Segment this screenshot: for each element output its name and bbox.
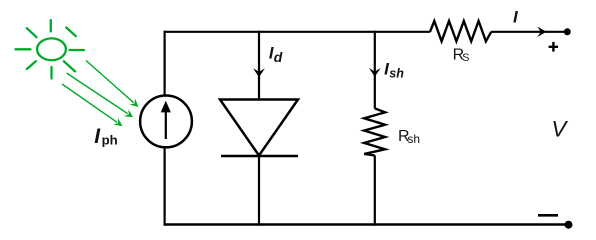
terminal + dot xyxy=(564,28,571,35)
wire top right (after Rs) xyxy=(491,31,566,33)
wire shunt branch lower xyxy=(374,155,376,225)
label - xyxy=(538,214,558,217)
label Rsh xyxy=(398,128,420,146)
wire left lower xyxy=(164,148,166,226)
svg-text:V: V xyxy=(551,117,568,142)
current arrow I xyxy=(537,27,546,38)
label + xyxy=(549,42,559,52)
svg-text:ph: ph xyxy=(102,132,118,147)
current source Iph xyxy=(140,96,192,148)
resistor Rsh xyxy=(364,108,385,155)
current arrow Id xyxy=(253,68,265,77)
label Id xyxy=(269,44,283,65)
current source arrow xyxy=(161,101,171,139)
wire shunt branch upper xyxy=(374,31,376,109)
svg-text:sh: sh xyxy=(389,67,404,81)
wire top xyxy=(164,31,431,33)
resistor Rs xyxy=(430,21,491,41)
light ray arrow 1 xyxy=(86,61,139,108)
current arrow Ish xyxy=(369,68,381,77)
wire bottom xyxy=(164,223,569,225)
label Iph xyxy=(94,125,117,148)
svg-text:sh: sh xyxy=(407,132,420,146)
wire diode branch lower xyxy=(258,156,260,226)
sun xyxy=(16,20,85,79)
wire diode branch upper xyxy=(258,31,260,100)
label Rs xyxy=(453,47,470,64)
label Ish xyxy=(384,59,404,80)
light ray arrow 2 xyxy=(67,73,134,117)
terminal - dot xyxy=(565,221,573,229)
light ray arrow 3 xyxy=(62,84,123,126)
svg-text:d: d xyxy=(274,49,283,65)
svg-text:S: S xyxy=(462,52,469,64)
diode D xyxy=(220,100,298,157)
wire left upper xyxy=(164,31,166,97)
